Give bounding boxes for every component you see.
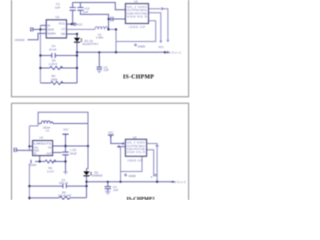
svg-text:ISD5-CP: ISD5-CP bbox=[129, 25, 145, 29]
svg-text:1uF: 1uF bbox=[83, 10, 88, 14]
svg-text:VOut1: VOut1 bbox=[169, 51, 182, 55]
svg-text:110 K 1W: 110 K 1W bbox=[58, 194, 71, 198]
svg-text:100k: 100k bbox=[51, 77, 58, 81]
svg-text:V1A V1.3: V1A V1.3 bbox=[127, 15, 148, 19]
svg-text:VCC: VCC bbox=[108, 132, 113, 135]
svg-text:U1: U1 bbox=[56, 15, 60, 19]
svg-text:GND8: GND8 bbox=[128, 174, 136, 178]
svg-text:FB: FB bbox=[61, 32, 65, 36]
svg-text:4: 4 bbox=[151, 175, 153, 179]
svg-text:VCC: VCC bbox=[158, 45, 164, 49]
svg-text:V1A V1.3: V1A V1.3 bbox=[127, 150, 146, 154]
svg-text:1uF: 1uF bbox=[55, 6, 60, 10]
svg-text:10 uF: 10 uF bbox=[49, 48, 57, 52]
svg-text:1 MH: 1 MH bbox=[96, 36, 103, 40]
svg-text:VCC: VCC bbox=[63, 128, 68, 131]
svg-text:U2: U2 bbox=[133, 135, 137, 139]
svg-text:ISD5-CP: ISD5-CP bbox=[128, 158, 143, 162]
svg-text:103 uF: 103 uF bbox=[59, 181, 69, 185]
svg-text:IS-CHPMP2: IS-CHPMP2 bbox=[127, 197, 156, 200]
svg-text:SCHOTTKY: SCHOTTKY bbox=[82, 42, 98, 46]
svg-text:SHDN: SHDN bbox=[47, 31, 56, 35]
svg-text:1N5818: 1N5818 bbox=[92, 174, 103, 178]
svg-text:VOut2: VOut2 bbox=[175, 180, 187, 184]
svg-text:VCC: VCC bbox=[76, 22, 83, 26]
svg-text:IS-CHPMP: IS-CHPMP bbox=[123, 75, 154, 81]
svg-text:GND8: GND8 bbox=[138, 45, 146, 49]
svg-text:IN: IN bbox=[34, 153, 37, 156]
svg-text:U1: U1 bbox=[40, 136, 44, 140]
svg-text:OUT: OUT bbox=[46, 153, 52, 156]
svg-text:VCC: VCC bbox=[59, 22, 66, 26]
svg-text:.1uF: .1uF bbox=[103, 68, 109, 72]
svg-text:1.0 K: 1.0 K bbox=[47, 169, 54, 173]
svg-text:U2: U2 bbox=[134, 0, 138, 4]
svg-text:LX: LX bbox=[61, 27, 65, 31]
svg-text:COM/GND: COM/GND bbox=[15, 38, 26, 42]
svg-text:NV: NV bbox=[48, 147, 52, 150]
svg-text:GND: GND bbox=[30, 163, 37, 167]
svg-text:LM3171: LM3171 bbox=[34, 142, 53, 146]
svg-text:.1uF: .1uF bbox=[112, 188, 118, 192]
svg-text:1.25 K: 1.25 K bbox=[49, 62, 58, 66]
svg-text:22uF: 22uF bbox=[70, 152, 77, 156]
svg-text:L1: L1 bbox=[46, 128, 50, 132]
